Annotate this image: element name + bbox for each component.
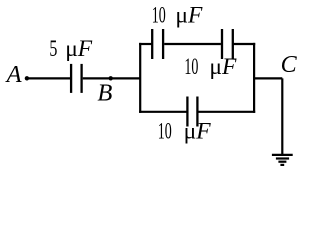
value label C1 5 uF xyxy=(49,36,92,62)
svg-text:μF: μF xyxy=(175,3,203,29)
wire A to C1 xyxy=(27,77,70,79)
svg-text:C: C xyxy=(281,52,298,78)
wire right rail to node C xyxy=(254,77,282,79)
wire node C to ground xyxy=(281,78,283,154)
wire bottom branch left xyxy=(140,111,186,113)
capacitor C3 xyxy=(222,29,233,59)
svg-text:μF: μF xyxy=(65,36,93,62)
ground xyxy=(272,155,293,165)
wire left rail xyxy=(139,44,141,112)
value label C3 10 uF xyxy=(184,54,237,80)
wire C1 to B xyxy=(83,77,141,79)
svg-text:μF: μF xyxy=(184,118,212,144)
svg-text:A: A xyxy=(5,61,23,88)
svg-text:μF: μF xyxy=(209,54,237,80)
svg-text:10: 10 xyxy=(158,118,172,144)
node A xyxy=(25,76,29,80)
node B xyxy=(109,76,113,80)
svg-text:10: 10 xyxy=(184,54,198,80)
svg-text:5: 5 xyxy=(49,36,57,62)
capacitor C1 xyxy=(71,64,82,93)
svg-text:10: 10 xyxy=(152,3,166,29)
wire C4 to right rail xyxy=(199,111,255,113)
value label C2 10 uF xyxy=(152,3,203,29)
wire top branch left xyxy=(140,43,151,45)
wire right rail xyxy=(253,44,255,112)
svg-text:B: B xyxy=(97,80,112,107)
wire C2 to C3 xyxy=(164,43,221,45)
capacitor C2 xyxy=(152,29,163,59)
wire C3 to right rail xyxy=(234,43,254,45)
value label C4 10 uF xyxy=(158,118,212,144)
capacitor C4 xyxy=(187,97,197,127)
